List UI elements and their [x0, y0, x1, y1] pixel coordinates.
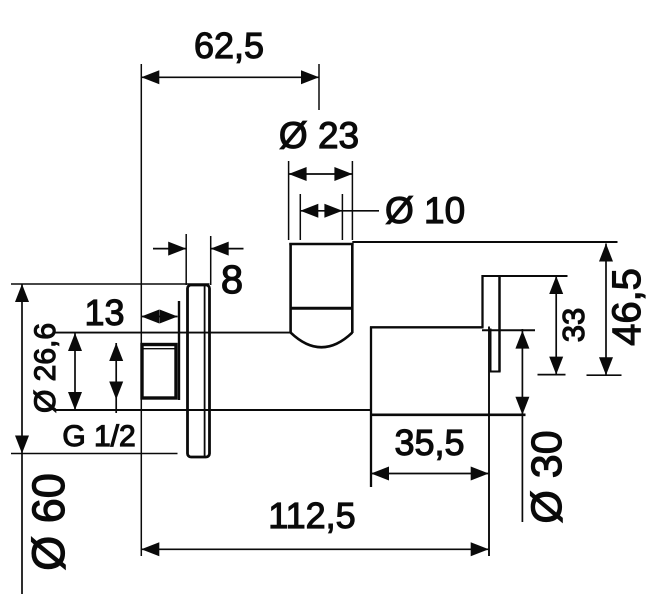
svg-text:Ø 10: Ø 10	[385, 190, 465, 231]
dimension 46,5 : axis tick	[587, 374, 622, 376]
dimension 33 : axis tick	[538, 374, 566, 376]
right body section (35,5 cylinder) top line with Ø30 extension	[370, 326, 484, 328]
pipe bottom chamfer curve	[291, 333, 353, 348]
dimension Ø60 : top extension line	[11, 283, 210, 285]
valve body left section bottom line (also Ø26,6 bottom extension)	[55, 409, 372, 411]
dimension 8 : extension lines	[185, 234, 187, 285]
dimension Ø26,6 : dimension line	[74, 333, 76, 410]
dimension 62,5 : dimension line	[141, 76, 319, 78]
dimension Ø60 : bottom extension line	[11, 453, 178, 455]
svg-text:Ø 26,6: Ø 26,6	[29, 323, 62, 413]
vertical inlet pipe left edge	[289, 243, 292, 333]
handle left edge	[481, 275, 483, 328]
wall flange (rosette)	[188, 285, 210, 457]
dimension Ø23 : dimension line	[289, 173, 353, 175]
svg-text:Ø 23: Ø 23	[279, 115, 359, 156]
connector thread inner line	[144, 348, 176, 350]
dimension Ø30 : dimension line	[521, 329, 523, 522]
dimension 8 : outside arrows with tails	[153, 248, 186, 250]
valve body left section top line (also Ø26,6 top extension)	[55, 332, 291, 334]
right body section bottom line with Ø30 extension	[370, 413, 526, 416]
right body section left step edge, extended as 35,5 extension line	[370, 327, 372, 488]
dimension 62,5 : left extension line (wall plane, shared with 13 and 112,5)	[140, 64, 142, 556]
top reference line at 46,5 level	[352, 241, 617, 243]
right body section right end edge, extended down as 112,5 extension	[488, 327, 490, 557]
dimension Ø23 : extension lines	[288, 161, 290, 240]
dimension Ø10 : dimension line with leader to label	[300, 210, 379, 212]
svg-text:Ø 60: Ø 60	[23, 473, 74, 571]
vertical inlet pipe right edge	[351, 243, 354, 333]
svg-text:33: 33	[556, 308, 591, 342]
dimension Ø60 : dimension line	[21, 284, 23, 594]
svg-text:8: 8	[221, 258, 243, 302]
G 1/2 wall connector body	[142, 345, 176, 399]
dimension 33 : dimension line	[555, 276, 557, 375]
dimension Ø10 : extension lines	[299, 194, 301, 240]
vertical inlet pipe top edge	[289, 243, 353, 246]
handle lower tab inner edge	[490, 329, 492, 372]
dimension 112,5 : dimension line	[141, 548, 488, 550]
dimension 46,5 : dimension line	[605, 244, 607, 376]
svg-text:35,5: 35,5	[394, 422, 464, 463]
dimension 13 : dimension line with inside arrows	[141, 316, 177, 318]
svg-text:13: 13	[84, 292, 124, 333]
dimension G 1/2 : dimension line with leader down to label	[115, 343, 117, 413]
svg-text:62,5: 62,5	[194, 25, 264, 66]
handle lower tab bottom edge	[490, 371, 501, 373]
svg-text:112,5: 112,5	[268, 495, 355, 536]
flange right inner edge line	[204, 286, 206, 456]
svg-text:46,5: 46,5	[605, 268, 649, 346]
dimension 13 : right extension line	[178, 301, 180, 400]
dimension 35,5 : dimension line	[371, 473, 489, 475]
dimension 62,5 : right extension line (pipe axis)	[318, 64, 320, 110]
svg-text:G 1/2: G 1/2	[62, 420, 135, 453]
pipe compression nut line	[290, 307, 354, 310]
handle right edge	[498, 275, 501, 372]
handle top edge extended as 33 extension line	[483, 275, 568, 277]
svg-text:Ø 30: Ø 30	[523, 430, 571, 523]
